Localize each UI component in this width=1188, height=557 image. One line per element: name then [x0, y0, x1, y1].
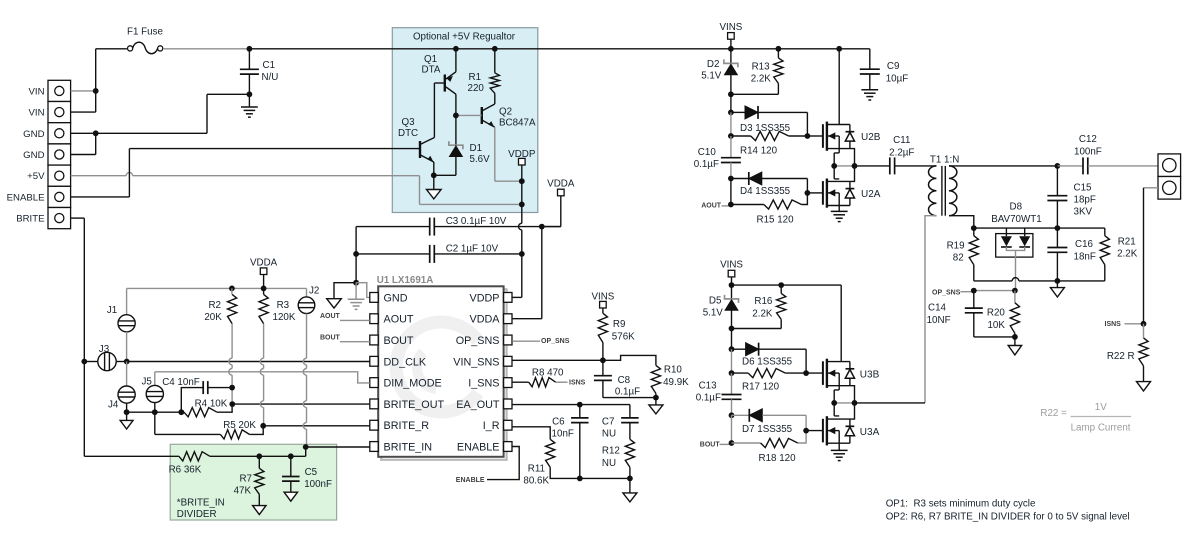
svg-text:VIN: VIN [29, 86, 45, 97]
mosfet U2A [822, 181, 824, 205]
wire VIN pin1 to junction [71, 90, 96, 92]
resistor R13 2.2K [776, 46, 782, 52]
ground earth at GND node [355, 283, 357, 300]
wire U3B drain to VINS2 row [840, 285, 842, 362]
svg-text:ENABLE: ENABLE [7, 192, 45, 203]
mosfet U3B [822, 361, 824, 385]
svg-text:C6: C6 [552, 417, 565, 428]
junction R3/BRITE_R [260, 423, 266, 429]
svg-text:2.2µF: 2.2µF [889, 148, 914, 159]
wire U3A gate [806, 430, 823, 432]
ground (triangle) below R12 [629, 478, 631, 493]
svg-text:VIN_SNS: VIN_SNS [453, 356, 499, 368]
svg-text:R2: R2 [208, 300, 221, 311]
junction GND node [353, 280, 359, 286]
resistor R16 2.2K [780, 285, 782, 293]
svg-text:R20: R20 [987, 308, 1006, 319]
junction at C1 [247, 46, 253, 52]
pin I_R (right 7) [504, 420, 512, 430]
svg-text:C5: C5 [305, 467, 318, 478]
svg-text:VDDP: VDDP [470, 292, 500, 304]
svg-text:D8: D8 [1010, 202, 1023, 213]
svg-text:BOUT: BOUT [700, 441, 721, 448]
ground (triangle) below R22 [1137, 382, 1151, 391]
svg-text:R1: R1 [469, 72, 482, 83]
svg-text:Lamp Current: Lamp Current [1071, 423, 1131, 434]
junction AOUT/R15 [728, 202, 734, 208]
capacitor C15 18pF 3KV [1056, 166, 1058, 196]
svg-text:DTA: DTA [422, 65, 441, 76]
svg-text:C12: C12 [1079, 134, 1097, 145]
left input connector J-header (VIN VIN GND GND +5V ENABLE BRITE) [48, 80, 71, 101]
svg-text:82: 82 [953, 253, 964, 264]
diode D3 1SS355 [731, 111, 745, 113]
junction VDDP / Q2 emitter [519, 178, 525, 184]
capacitor C3 0.1uF 10V [356, 226, 430, 228]
mosfet U3A [822, 419, 824, 443]
ground (triangle) below C16 node [1056, 281, 1058, 288]
wire VDDA distribution row (gray) [127, 287, 307, 289]
net label ENABLE at IC [487, 447, 519, 480]
wire VIN_SNS to R9/C8 node [512, 359, 603, 361]
pin ENABLE (right 8) [504, 442, 512, 452]
svg-text:U3B: U3B [860, 369, 880, 380]
wire +5V net from connector (gray) [71, 175, 127, 177]
svg-text:GND: GND [23, 129, 44, 140]
junction D2/R13 [728, 91, 734, 97]
svg-text:N/U: N/U [262, 72, 279, 83]
wire output low side to R22 [1144, 187, 1159, 189]
svg-text:0.1µF: 0.1µF [615, 387, 640, 398]
svg-text:100nF: 100nF [1074, 147, 1102, 158]
junction J1/J3/DD_CLK [124, 359, 130, 365]
junction J4 bottom [124, 409, 130, 415]
svg-text:R12: R12 [602, 445, 620, 456]
half-bridge U2 middle node [834, 149, 839, 153]
resistor R3 120K [263, 288, 265, 294]
junction regulator rail R1 [492, 46, 498, 52]
svg-text:OP2: R6, R7 BRITE_IN DIVIDER f: OP2: R6, R7 BRITE_IN DIVIDER for 0 to 5V… [886, 512, 1130, 523]
ground (triangle) below J4 [126, 412, 128, 420]
pin OP_SNS (right 3) [504, 335, 512, 345]
svg-text:100nF: 100nF [304, 479, 332, 490]
svg-text:D2: D2 [707, 59, 720, 70]
mosfet U2B [822, 124, 824, 148]
svg-text:BAV70WT1: BAV70WT1 [991, 214, 1041, 225]
wire BOUT node down [731, 415, 733, 443]
capacitor C14 10NF [973, 291, 975, 309]
svg-text:C2 1µF 10V: C2 1µF 10V [446, 243, 499, 254]
junction U3A gate node [803, 428, 809, 434]
wire fuse to C1 node [163, 48, 249, 50]
svg-text:5.1V: 5.1V [701, 70, 722, 81]
wire DIM_MODE to J5 (gray) [155, 372, 370, 383]
resistor R11 80.6K [512, 427, 550, 440]
svg-text:OP_SNS: OP_SNS [932, 289, 961, 296]
svg-text:R17 120: R17 120 [742, 382, 780, 393]
svg-text:C16: C16 [1075, 239, 1094, 250]
svg-text:EA_OUT: EA_OUT [456, 399, 500, 411]
junction VDDP / C2 [519, 251, 525, 257]
wire VDDP rail down to IC pin [521, 165, 523, 223]
svg-text:DIM_MODE: DIM_MODE [384, 378, 442, 390]
svg-text:10µF: 10µF [886, 74, 909, 85]
pin VIN_SNS (right 4) [504, 356, 512, 366]
diode D4 1SS355 [731, 178, 749, 180]
svg-text:NU: NU [602, 458, 616, 469]
svg-text:R18 120: R18 120 [759, 453, 797, 464]
wire R6 node up to BRITE_IN [305, 447, 307, 456]
svg-text:20K: 20K [204, 312, 222, 323]
junction R20/C14 bottom [1012, 334, 1018, 340]
junction ISNS [1141, 321, 1147, 327]
IC U1 LX1691A body [381, 289, 506, 460]
svg-text:576K: 576K [612, 332, 635, 343]
capacitor C6 10nF [579, 405, 581, 418]
svg-text:BOUT: BOUT [320, 335, 341, 342]
svg-text:Optional +5V Regualtor: Optional +5V Regualtor [413, 32, 516, 43]
svg-text:0.1µF: 0.1µF [696, 393, 721, 404]
svg-text:C8: C8 [618, 375, 631, 386]
svg-text:D3 1SS355: D3 1SS355 [740, 123, 791, 134]
svg-text:R4 10K: R4 10K [195, 399, 228, 410]
pin DIM_MODE (left 5) [370, 378, 378, 388]
ground (triangle) below R20 [1014, 337, 1016, 346]
svg-text:VDDA: VDDA [250, 257, 278, 268]
junction VDDA/R3 top [261, 286, 267, 292]
svg-text:DTC: DTC [398, 128, 418, 139]
svg-text:Q3: Q3 [402, 117, 416, 128]
wire T1 secondary top to C12 node [949, 165, 1057, 167]
junction C5 top [288, 453, 294, 459]
resistor R22 R [1143, 324, 1145, 338]
svg-text:2.2K: 2.2K [1117, 249, 1138, 260]
svg-text:D6 1SS355: D6 1SS355 [742, 357, 793, 368]
ground (triangle) below C5 [284, 492, 297, 501]
capacitor C11 2.2uF [889, 157, 891, 174]
wire VDDA rail down to IC pin [541, 227, 543, 319]
capacitor C9 10uF [869, 49, 871, 69]
half-bridge U3 middle node [834, 386, 839, 390]
capacitor C12 100nF [1057, 165, 1083, 167]
resistor R17 120 [732, 372, 749, 374]
svg-text:0.1µF: 0.1µF [694, 159, 719, 170]
svg-text:J4: J4 [108, 400, 119, 411]
wire C3/C2 left rail to GND node [355, 227, 357, 283]
svg-text:R22 R: R22 R [1107, 351, 1135, 362]
svg-text:2.2K: 2.2K [752, 309, 773, 320]
svg-text:R21: R21 [1118, 237, 1136, 248]
svg-text:18pF: 18pF [1074, 195, 1096, 206]
wire U2 mid to C11 [855, 165, 890, 167]
svg-text:220: 220 [468, 83, 485, 94]
junction R2 top [229, 286, 235, 292]
svg-text:18nF: 18nF [1074, 252, 1096, 263]
net label BOUT at IC [340, 341, 370, 343]
wire C6/R12 bottom row [580, 477, 630, 479]
svg-text:ISNS: ISNS [1105, 321, 1122, 328]
svg-text:GND: GND [23, 150, 44, 161]
svg-text:BRITE_R: BRITE_R [384, 420, 430, 432]
svg-text:C9: C9 [887, 61, 900, 72]
svg-text:U2B: U2B [861, 132, 881, 143]
svg-text:1V: 1V [1095, 402, 1107, 413]
junction D7 row [729, 412, 735, 418]
wire U2B gate [807, 135, 823, 137]
svg-text:BOUT: BOUT [384, 335, 414, 347]
capacitor C1 N/U [248, 49, 250, 70]
pin EA_OUT (right 6) [504, 399, 512, 409]
svg-text:C4 10nF: C4 10nF [162, 377, 200, 388]
svg-text:R13: R13 [752, 62, 771, 73]
svg-text:3KV: 3KV [1074, 207, 1093, 218]
net label OP_SNS at IC [512, 340, 540, 342]
svg-text:BRITE_IN: BRITE_IN [384, 442, 433, 454]
svg-text:J2: J2 [309, 286, 319, 297]
junction C1 bottom [247, 91, 253, 97]
svg-text:R14 120: R14 120 [740, 146, 778, 157]
svg-text:D5: D5 [709, 296, 722, 307]
svg-text:R16: R16 [754, 296, 773, 307]
svg-text:VINS: VINS [720, 260, 743, 271]
svg-text:NU: NU [602, 429, 616, 440]
svg-text:+5V: +5V [27, 171, 45, 182]
svg-text:80.6K: 80.6K [523, 475, 549, 486]
svg-text:BRITE_OUT: BRITE_OUT [384, 399, 445, 411]
pin BRITE_OUT (left 6) [370, 399, 378, 409]
svg-text:BC847A: BC847A [499, 118, 536, 129]
junction J5 bottom [152, 409, 158, 415]
resistor R6 36K [179, 452, 210, 461]
svg-text:R19: R19 [947, 241, 965, 252]
svg-text:ENABLE: ENABLE [457, 442, 500, 454]
pin AOUT (left 2) [370, 314, 378, 324]
svg-text:2.2K: 2.2K [751, 74, 772, 85]
junction J2/BRITE_IN [303, 444, 309, 450]
resistor R4 10K [184, 408, 217, 417]
wire C13 column upper (gray) [731, 349, 733, 373]
resistor R21 2.2K [1104, 228, 1106, 236]
svg-text:J1: J1 [107, 305, 117, 316]
junction VINS rail [728, 46, 734, 52]
junction U2B gate node [805, 133, 811, 139]
pin DD_CLK (left 4) [370, 356, 378, 366]
svg-text:C13: C13 [699, 381, 718, 392]
diode D6 1SS355 [732, 348, 746, 350]
svg-text:49.9K: 49.9K [663, 377, 689, 388]
svg-text:DIVIDER: DIVIDER [177, 509, 217, 520]
junction C12/C15 node [1055, 163, 1061, 169]
wire J2 rail down to BRITE_IN (gray) [306, 314, 308, 359]
resistor R10 49.9K [603, 355, 656, 365]
svg-text:U2A: U2A [861, 189, 881, 200]
junction R2/BRITE_OUT [229, 401, 235, 407]
wire VIN rail to regulator and VINS [249, 48, 869, 50]
svg-text:VDDA: VDDA [547, 179, 575, 190]
junction VIN_SNS node [600, 357, 606, 363]
junction R7 top [256, 453, 262, 459]
wire BRITE_IN [306, 446, 370, 448]
svg-text:R15 120: R15 120 [757, 215, 795, 226]
resistor R8 470 / net ISNS [512, 381, 529, 383]
junction C4 right [229, 385, 235, 391]
svg-text:R10: R10 [664, 365, 683, 376]
svg-text:ISNS: ISNS [569, 380, 586, 387]
svg-text:I_R: I_R [483, 420, 500, 432]
svg-text:R22 =: R22 = [1040, 408, 1067, 419]
wire BRITE_R [263, 425, 370, 427]
wire T1 secondary bottom [949, 216, 974, 228]
pin BRITE_R (left 7) [370, 420, 378, 430]
capacitor C10 0.1uF [730, 136, 732, 158]
resistor R14 120 [731, 135, 751, 137]
resistor R20 10K [1014, 291, 1016, 303]
pin I_SNS (right 5) [504, 378, 512, 388]
wire U3 mid to T1 primary return [855, 402, 926, 404]
resistor R18 120 [732, 442, 761, 444]
svg-text:Q2: Q2 [499, 107, 512, 118]
svg-text:VINS: VINS [719, 22, 742, 33]
IC watermark logo [396, 322, 478, 412]
svg-text:C3 0.1µF 10V: C3 0.1µF 10V [446, 216, 507, 227]
junction R14 row [728, 133, 734, 139]
svg-text:C11: C11 [893, 135, 910, 146]
wire secondary bottom node row [974, 227, 1105, 229]
svg-text:5.6V: 5.6V [470, 154, 491, 165]
resistor R5 20K [154, 412, 156, 434]
svg-text:DD_CLK: DD_CLK [384, 356, 427, 368]
junction Q3 emitter node [431, 172, 437, 178]
junction D6 row [729, 346, 735, 352]
junction R17 row [729, 370, 735, 376]
capacitor C7 NU [629, 405, 631, 418]
wire BRITE_OUT [232, 403, 369, 405]
wire T1 primary return (gray) [925, 216, 936, 403]
svg-text:120K: 120K [273, 312, 296, 323]
svg-text:47K: 47K [234, 486, 252, 497]
ground (triangle) at GND node [334, 283, 356, 299]
svg-text:5.1V: 5.1V [703, 308, 724, 319]
capacitor C8 0.1uF [602, 360, 604, 375]
resistor R12 NU [625, 439, 634, 467]
diode D7 1SS355 [732, 414, 750, 416]
capacitor C13 0.1uF [731, 373, 733, 394]
resistor R7 47K [258, 456, 260, 468]
ground (triangle) in regulator [433, 175, 435, 189]
svg-text:D4 1SS355: D4 1SS355 [740, 186, 791, 197]
svg-text:R8 470: R8 470 [532, 367, 564, 378]
svg-text:AOUT: AOUT [701, 203, 722, 210]
pin VDDA (right 2) [504, 314, 512, 324]
svg-text:VDDA: VDDA [470, 314, 501, 326]
transistor Q3 DTC (NPN) [419, 141, 421, 158]
zener diode D5 5.1V [731, 285, 733, 299]
wire BRITE from connector down left side [71, 217, 85, 219]
junction C4/R4 left [178, 409, 184, 415]
svg-text:T1 1:N: T1 1:N [930, 154, 959, 165]
junction D4 row [728, 176, 734, 182]
svg-text:I_SNS: I_SNS [468, 378, 499, 390]
wire U3B gate [806, 372, 823, 374]
svg-text:AOUT: AOUT [384, 314, 414, 326]
junction VDDP / +5V [519, 202, 525, 208]
pin VDDP (right 1) [504, 293, 512, 303]
junction D3 row [728, 110, 734, 116]
svg-text:OP_SNS: OP_SNS [541, 338, 570, 345]
junction VIN pins [93, 88, 99, 94]
svg-text:R5 20K: R5 20K [223, 420, 256, 431]
svg-text:*BRITE_IN: *BRITE_IN [177, 498, 225, 509]
capacitor C2 1uF 10V [356, 253, 430, 255]
zener diode D2 5.1V [730, 49, 732, 64]
svg-text:Q1: Q1 [424, 54, 437, 65]
junction U3B gate node [803, 370, 809, 376]
svg-text:GND: GND [384, 292, 408, 304]
svg-text:U1 LX1691A: U1 LX1691A [377, 275, 434, 286]
optional +5V regulator block (blue box) [392, 28, 538, 213]
wire U2B drain to rail [838, 49, 840, 125]
wire GND pins to C1 ground [71, 132, 96, 134]
svg-text:D1: D1 [470, 143, 483, 154]
wire GND node to IC GND pin (gray) [356, 283, 370, 298]
junction EA_OUT/C6 [577, 402, 583, 408]
svg-text:R3: R3 [277, 300, 290, 311]
junction C8/R10 bottom [653, 395, 659, 401]
wire VINS2 row [732, 284, 842, 286]
svg-text:R9: R9 [613, 319, 626, 330]
svg-text:OP_SNS: OP_SNS [456, 335, 500, 347]
wire lower node row with hop [974, 280, 1012, 282]
junction D5/R16 [729, 326, 735, 332]
wire R2 rail down to BRITE_OUT (gray) [231, 324, 233, 359]
resistor R15 120 [731, 204, 764, 206]
resistor R2 20K [231, 288, 233, 294]
transistor Q1 DTA (PNP) [444, 75, 446, 92]
BRITE_IN divider block (green box) [170, 444, 336, 520]
wire J4/J5 bottom row [127, 411, 182, 413]
svg-text:OP1: R3 sets minimum duty cyc: OP1: R3 sets minimum duty cycle [886, 499, 1036, 510]
svg-text:R7: R7 [239, 474, 252, 485]
svg-text:C1: C1 [263, 60, 276, 71]
wire AOUT node down [730, 179, 732, 205]
junction C2 left [353, 251, 359, 257]
capacitor C16 18nF [1056, 228, 1058, 247]
capacitor C4 10nF [181, 388, 203, 413]
resistor R1 220 [494, 49, 496, 73]
ground earth below U3A [838, 443, 840, 450]
junction U2A gate node [805, 190, 811, 196]
junction Q1 collector / D1 / Q2 base [453, 113, 459, 119]
wire C10 column upper (gray) [730, 112, 732, 136]
wire VIN pin2 up to VIN rail [71, 111, 96, 113]
junction BRITE/J3 [81, 359, 87, 365]
svg-text:C7: C7 [602, 417, 615, 428]
svg-text:ENABLE: ENABLE [456, 477, 485, 484]
ground (triangle) below R10 [655, 398, 657, 405]
svg-text:10nF: 10nF [552, 429, 574, 440]
svg-text:R6 36K: R6 36K [169, 465, 202, 476]
svg-text:BRITE: BRITE [16, 214, 44, 225]
ground earth below U2A [838, 206, 840, 212]
svg-text:C15: C15 [1074, 183, 1093, 194]
pin BRITE_IN (left 8) [370, 442, 378, 452]
svg-text:10NF: 10NF [927, 315, 951, 326]
svg-text:C14: C14 [928, 303, 947, 314]
junction BOUT/R18 [729, 440, 735, 446]
junction regulator rail Q1 [453, 46, 459, 52]
svg-text:VIN: VIN [29, 108, 45, 119]
wire EA_OUT row [512, 404, 630, 406]
